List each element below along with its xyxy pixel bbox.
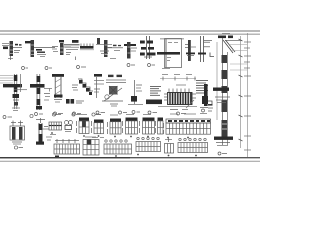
wall section: main verticals — [217, 38, 228, 145]
wall section: left small bracket — [208, 101, 213, 111]
wall section: hatched wall segments — [222, 55, 228, 137]
detail 9: big frame — [157, 39, 184, 69]
long table 3 — [136, 137, 161, 155]
dimension line outer — [230, 33, 251, 157]
detail 15: stair steps — [66, 79, 93, 104]
wall section: top cap — [218, 34, 242, 41]
detail 13: column section — [30, 74, 52, 110]
detail 7: column head — [124, 42, 137, 59]
detail 4: beam strip — [80, 44, 94, 50]
detail 20: hatched beam with dimension row — [158, 75, 197, 110]
detail 14: ladder reinforcement — [52, 74, 64, 102]
label 11 — [119, 111, 128, 114]
long table 1 — [54, 139, 80, 157]
detail 24: twin rings — [65, 121, 73, 132]
detail 8: stair column — [140, 36, 156, 59]
label 1 — [22, 67, 29, 70]
detail 17: flashing assembly — [102, 75, 126, 106]
grid table B — [92, 115, 105, 138]
label 4 — [127, 64, 135, 67]
detail 21: stacked roof edge — [196, 81, 208, 114]
detail 12: roof layers at left edge — [0, 74, 27, 111]
detail 3: parapet joint — [52, 40, 80, 60]
detail 16: gutter — [94, 74, 104, 98]
grid table C — [108, 115, 122, 137]
detail 5: wall tie — [96, 38, 116, 59]
detail 2: balcony edge — [25, 40, 55, 57]
wide schedule table — [164, 114, 211, 138]
label 7 — [35, 113, 44, 116]
label 12 — [132, 111, 140, 114]
top border double line — [0, 31, 260, 34]
detail 19: layered curb — [146, 87, 162, 105]
detail 23: post elevation — [36, 118, 49, 145]
label 2 — [45, 67, 52, 70]
label 10 — [96, 111, 105, 114]
grid table A — [77, 115, 90, 137]
small marks left of long table — [46, 137, 52, 140]
detail 11: mullion — [198, 36, 214, 62]
small box table — [165, 138, 174, 156]
wall section: floor slabs — [213, 88, 233, 140]
wall section: sloped top chord — [223, 40, 235, 53]
detail 18: downpipe — [128, 80, 143, 105]
wall section: bottom label — [218, 152, 227, 155]
label 13 — [148, 111, 157, 114]
label 9 — [73, 112, 82, 115]
label 14 — [177, 112, 187, 115]
grid table F narrow — [156, 118, 164, 135]
long table 4 — [178, 138, 208, 156]
label 6 — [3, 116, 12, 119]
grid table E — [140, 115, 155, 138]
label 5 — [148, 64, 156, 67]
label 8 — [54, 112, 64, 115]
label 3 — [77, 66, 87, 69]
detail 10: jamb — [185, 40, 196, 61]
grid table G — [83, 137, 99, 155]
bottom border double line — [0, 158, 260, 162]
grid table D — [123, 115, 138, 138]
dimension line inner — [239, 36, 243, 148]
wall section: mid annotations — [215, 97, 230, 146]
schedule strip 1 — [49, 122, 62, 135]
detail 6: slab notch — [108, 45, 123, 51]
detail 1: eave section — [2, 41, 22, 60]
detail 22: frame box with posts — [10, 121, 25, 150]
labels above grid row — [52, 113, 101, 116]
label 15 — [30, 114, 33, 117]
long table 2 — [104, 140, 132, 157]
